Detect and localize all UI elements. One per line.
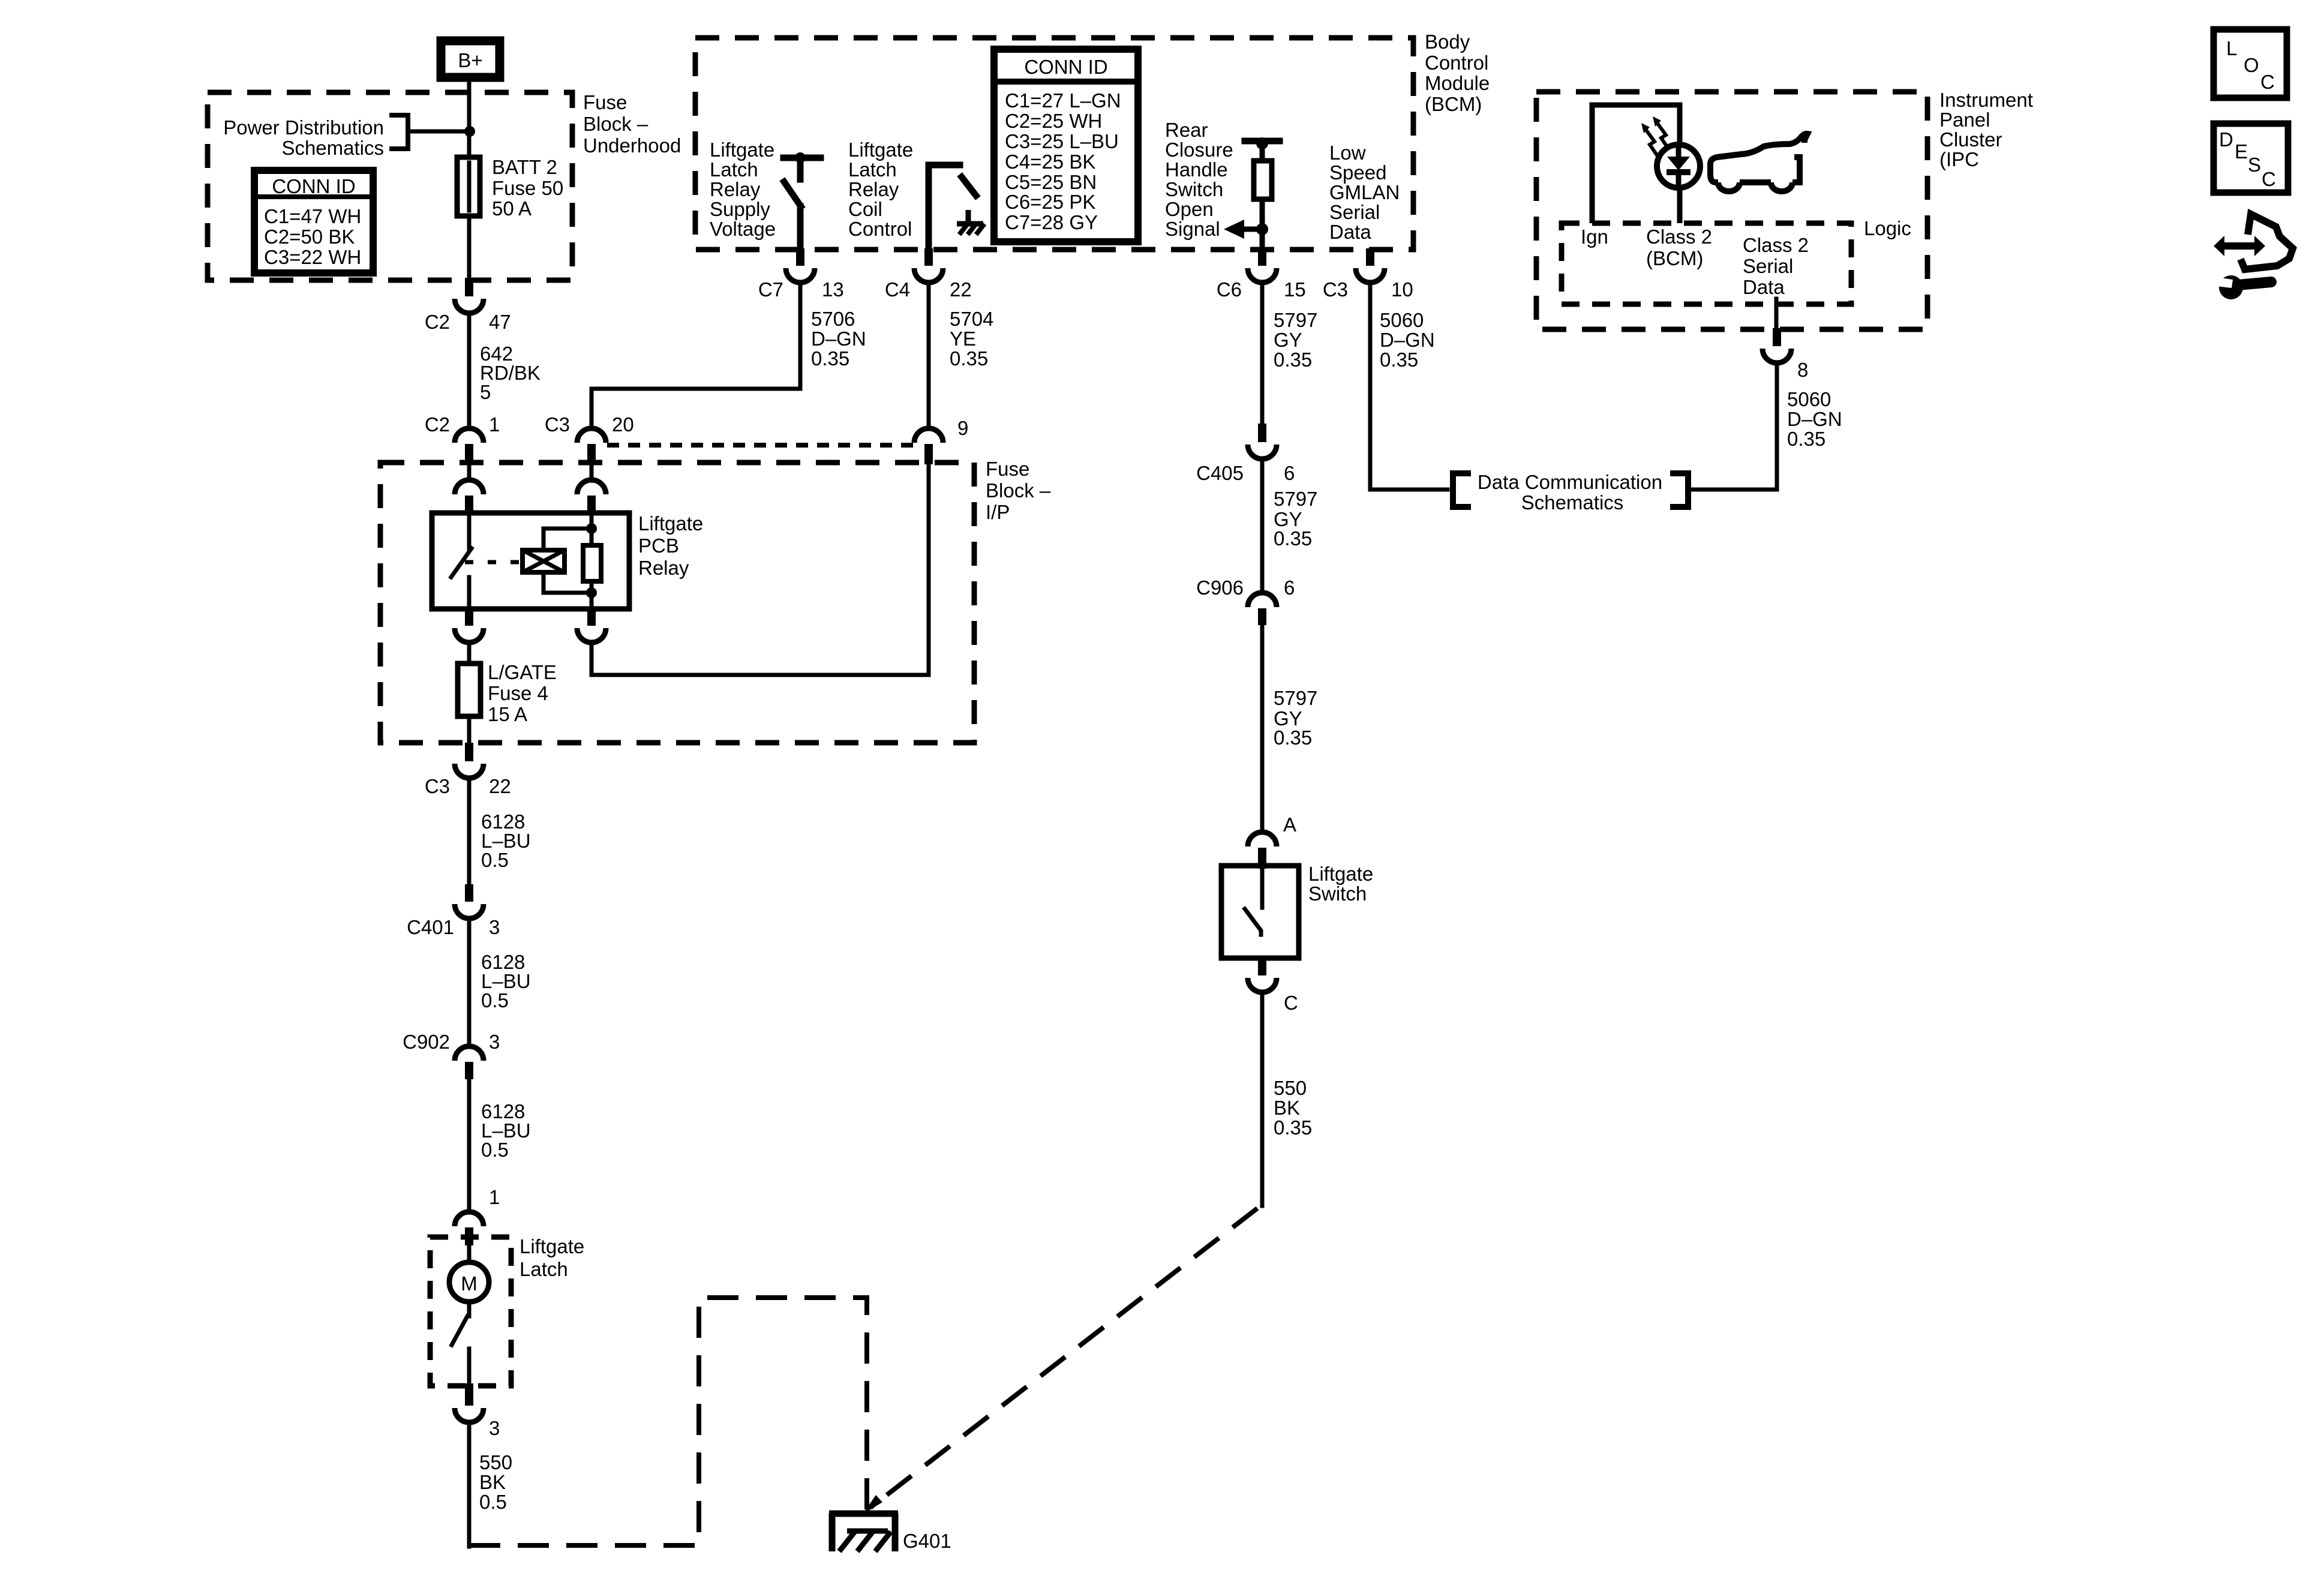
svg-text:Instrument: Instrument xyxy=(1939,89,2033,111)
svg-text:0.5: 0.5 xyxy=(479,1491,507,1513)
svg-text:C401: C401 xyxy=(407,916,454,938)
svg-text:C2=25 WH: C2=25 WH xyxy=(1005,110,1102,132)
svg-text:Liftgate: Liftgate xyxy=(520,1235,584,1257)
supply voltage switch in BCM xyxy=(783,152,821,250)
svg-text:22: 22 xyxy=(950,278,972,301)
wire 550 BK 0.35 from liftgate switch xyxy=(1260,992,1265,1206)
svg-text:C3=22 WH: C3=22 WH xyxy=(264,246,361,268)
svg-text:8: 8 xyxy=(1797,359,1808,381)
svg-text:Closure: Closure xyxy=(1165,139,1233,161)
svg-text:C4=25 BK: C4=25 BK xyxy=(1005,151,1095,173)
svg-text:D–GN: D–GN xyxy=(1787,408,1842,430)
body control module dashed box xyxy=(695,38,1413,250)
svg-text:10: 10 xyxy=(1391,278,1413,301)
dashed ground path from latch to G401 xyxy=(469,1298,867,1545)
svg-text:Rear: Rear xyxy=(1165,119,1208,141)
svg-text:C3: C3 xyxy=(1323,278,1348,301)
logic dashed box in IPC xyxy=(1562,223,1851,304)
connector C401 pin 3 xyxy=(407,884,500,938)
dashed diagonal ground wire to G401 xyxy=(870,1208,1257,1508)
svg-text:0.35: 0.35 xyxy=(1274,527,1312,550)
svg-text:GY: GY xyxy=(1274,329,1302,351)
wire B+ down to fuse xyxy=(467,82,472,157)
power symbol B+ xyxy=(441,41,500,77)
wire coil bottom branch xyxy=(544,572,589,593)
svg-text:C: C xyxy=(1284,992,1298,1014)
connector C3 pin 10 xyxy=(1323,248,1413,301)
connector liftgate switch pin A xyxy=(1248,813,1296,869)
LED emission arrows xyxy=(1641,116,1669,156)
connector C7 pin 13 xyxy=(758,248,844,301)
navigation arrow icon xyxy=(2214,214,2293,269)
svg-text:Handle: Handle xyxy=(1165,158,1228,181)
svg-text:Schematics: Schematics xyxy=(1521,491,1624,514)
motor M in liftgate latch xyxy=(449,1245,489,1302)
rear closure resistor branch in BCM xyxy=(1245,137,1280,250)
svg-text:C6=25 PK: C6=25 PK xyxy=(1005,191,1095,213)
svg-text:15: 15 xyxy=(1284,278,1306,301)
svg-text:O: O xyxy=(2244,54,2259,76)
svg-text:0.5: 0.5 xyxy=(481,849,509,871)
DESC icon box xyxy=(2214,124,2288,193)
svg-text:Block –: Block – xyxy=(583,113,648,135)
wire 6128 L-BU 0.5 (segment 1) xyxy=(467,778,472,885)
liftgate switch box xyxy=(1221,866,1299,958)
open signal arrow xyxy=(1224,220,1268,239)
svg-text:BATT 2: BATT 2 xyxy=(492,156,557,178)
wire through relay right xyxy=(590,513,594,545)
svg-text:Supply: Supply xyxy=(710,198,770,220)
svg-text:0.5: 0.5 xyxy=(481,989,509,1011)
svg-text:Relay: Relay xyxy=(638,557,689,579)
svg-text:C2: C2 xyxy=(425,413,450,436)
svg-text:Module: Module xyxy=(1425,72,1490,94)
svg-text:Panel: Panel xyxy=(1939,109,1990,131)
svg-text:Ign: Ign xyxy=(1581,226,1608,248)
svg-text:Switch: Switch xyxy=(1165,178,1223,200)
wire bracket to IPC pin 8 xyxy=(1691,364,1777,490)
telltale solid box in IPC xyxy=(1592,105,1680,223)
wire coil top branch xyxy=(544,529,589,550)
svg-text:0.35: 0.35 xyxy=(1274,349,1312,371)
svg-text:1: 1 xyxy=(489,413,500,436)
svg-text:D: D xyxy=(2219,128,2233,151)
fuse BATT 2 Fuse 50 50 A xyxy=(457,156,563,278)
svg-text:5797: 5797 xyxy=(1274,687,1317,709)
svg-text:20: 20 xyxy=(612,413,634,436)
node dot coil bottom xyxy=(586,587,597,598)
svg-text:C3: C3 xyxy=(545,413,570,436)
svg-text:0.35: 0.35 xyxy=(811,347,849,370)
svg-text:YE: YE xyxy=(950,328,976,350)
svg-text:GMLAN: GMLAN xyxy=(1329,181,1400,203)
LOC icon box xyxy=(2214,29,2287,98)
svg-text:L/GATE: L/GATE xyxy=(488,661,557,683)
svg-text:Data: Data xyxy=(1329,221,1371,243)
internal ground rake in BCM xyxy=(957,210,984,235)
wire 6128 L-BU 0.5 (segment 3) xyxy=(467,1079,472,1212)
svg-text:3: 3 xyxy=(489,1031,500,1053)
wire 5797 GY 0.35 (segment 3) xyxy=(1260,625,1265,832)
connector C4 pin 22 xyxy=(885,248,972,301)
svg-text:C7=28 GY: C7=28 GY xyxy=(1005,211,1098,233)
relay socket connector left out xyxy=(455,609,484,664)
svg-text:5797: 5797 xyxy=(1274,309,1317,331)
connector C405 pin 6 xyxy=(1196,424,1295,484)
relay linkage dashes xyxy=(465,560,521,565)
node dot coil top xyxy=(586,523,597,534)
svg-text:(BCM): (BCM) xyxy=(1646,247,1703,269)
svg-text:Coil: Coil xyxy=(848,198,882,220)
wrench icon xyxy=(2216,275,2271,299)
ground G401 symbol xyxy=(829,1514,898,1551)
svg-text:B+: B+ xyxy=(458,49,482,71)
wire 5060 D-GN 0.35 to data bracket xyxy=(1370,283,1448,490)
svg-text:BK: BK xyxy=(1274,1097,1300,1119)
svg-text:Fuse: Fuse xyxy=(583,91,627,113)
svg-text:0.35: 0.35 xyxy=(1274,727,1312,749)
svg-text:C1=27 L–GN: C1=27 L–GN xyxy=(1005,89,1121,112)
connector C902 pin 3 xyxy=(403,1031,500,1079)
svg-text:50 A: 50 A xyxy=(492,197,532,220)
svg-text:G401: G401 xyxy=(903,1530,951,1552)
wire from logic to pin 8 xyxy=(1774,299,1779,329)
svg-text:Data Communication: Data Communication xyxy=(1478,471,1662,493)
svg-text:C2: C2 xyxy=(425,311,450,333)
svg-text:C2=50 BK: C2=50 BK xyxy=(264,226,355,248)
svg-text:C906: C906 xyxy=(1196,577,1244,599)
svg-text:C3=25 L–BU: C3=25 L–BU xyxy=(1005,130,1119,152)
liftgate switch contact xyxy=(1245,866,1262,935)
svg-text:BK: BK xyxy=(479,1471,506,1493)
svg-text:Liftgate: Liftgate xyxy=(638,512,703,535)
relay socket connector right out xyxy=(577,609,606,643)
svg-text:Open: Open xyxy=(1165,198,1214,220)
svg-text:0.35: 0.35 xyxy=(950,347,988,370)
svg-text:M: M xyxy=(461,1272,478,1295)
svg-text:Power Distribution: Power Distribution xyxy=(223,116,384,139)
svg-text:C: C xyxy=(2260,71,2275,93)
svg-text:C405: C405 xyxy=(1196,462,1244,484)
svg-text:D–GN: D–GN xyxy=(811,328,866,350)
connector pin 8 xyxy=(1762,328,1808,381)
instrument panel cluster dashed box xyxy=(1536,92,1927,329)
vehicle liftgate icon in IPC xyxy=(1710,134,1807,191)
connector C2 pin 47 xyxy=(425,278,511,333)
fuse block I/P dashed box xyxy=(380,463,974,743)
svg-text:550: 550 xyxy=(1274,1077,1307,1099)
relay switch contact xyxy=(451,513,472,609)
svg-text:Liftgate: Liftgate xyxy=(848,139,913,161)
note Data Communication Schematics with brackets xyxy=(1453,471,1688,514)
latch switch contact xyxy=(452,1302,469,1383)
svg-text:6: 6 xyxy=(1284,577,1295,599)
svg-text:550: 550 xyxy=(479,1451,512,1473)
svg-text:CONN ID: CONN ID xyxy=(272,175,355,197)
svg-text:Relay: Relay xyxy=(848,178,899,200)
wire 5797 GY 0.35 (segment 2) xyxy=(1260,459,1265,593)
resistor in relay xyxy=(583,545,601,581)
connector pin 9 xyxy=(914,417,968,464)
svg-text:C5=25 BN: C5=25 BN xyxy=(1005,171,1097,193)
svg-text:0.35: 0.35 xyxy=(1787,428,1825,450)
svg-text:9: 9 xyxy=(957,417,968,439)
svg-text:5704: 5704 xyxy=(950,308,993,330)
wire to power distribution bracket xyxy=(409,130,467,134)
wire 5706 D-GN 0.35 to C3/20 xyxy=(591,283,800,428)
svg-text:Fuse 50: Fuse 50 xyxy=(492,177,563,199)
svg-text:Fuse 4: Fuse 4 xyxy=(488,682,548,704)
svg-text:6: 6 xyxy=(1284,462,1295,484)
svg-text:Speed: Speed xyxy=(1329,161,1386,184)
svg-text:C6: C6 xyxy=(1217,278,1242,301)
svg-text:47: 47 xyxy=(489,311,511,333)
CONN ID table (BCM) xyxy=(994,49,1138,242)
liftgate latch dashed box xyxy=(430,1237,511,1386)
svg-text:Class 2: Class 2 xyxy=(1743,234,1809,256)
svg-text:Serial: Serial xyxy=(1329,201,1380,223)
svg-text:5: 5 xyxy=(480,381,491,403)
relay socket connector right in xyxy=(577,466,606,512)
svg-text:Relay: Relay xyxy=(710,178,761,200)
svg-text:Data: Data xyxy=(1743,276,1785,298)
wire coil return to pin 9 xyxy=(591,466,929,675)
svg-text:15 A: 15 A xyxy=(488,703,527,725)
connector latch pin 1 xyxy=(455,1186,500,1245)
svg-text:Control: Control xyxy=(848,218,912,240)
connector latch pin 3 xyxy=(455,1383,500,1439)
note Power Distribution Schematics with bracket xyxy=(223,115,408,159)
svg-text:Control: Control xyxy=(1425,52,1488,74)
svg-text:Latch: Latch xyxy=(848,158,897,181)
svg-text:5060: 5060 xyxy=(1380,309,1424,331)
svg-text:C3: C3 xyxy=(425,775,450,797)
svg-text:Body: Body xyxy=(1425,31,1470,53)
svg-text:I/P: I/P xyxy=(986,501,1010,523)
svg-text:Underhood: Underhood xyxy=(583,134,681,157)
wire 642 RD/BK 5 xyxy=(467,313,472,428)
svg-text:Voltage: Voltage xyxy=(710,218,776,240)
fuse block underhood dashed box xyxy=(208,92,572,280)
connector C3 pin 20 xyxy=(545,413,634,464)
svg-text:A: A xyxy=(1283,813,1296,836)
svg-text:1: 1 xyxy=(489,1186,500,1208)
svg-text:Fuse: Fuse xyxy=(986,458,1029,480)
svg-text:Latch: Latch xyxy=(520,1258,568,1280)
svg-text:Class 2: Class 2 xyxy=(1646,226,1712,248)
connector C3 pin 22 xyxy=(425,743,511,797)
svg-text:5706: 5706 xyxy=(811,308,855,330)
svg-text:L: L xyxy=(2226,37,2237,59)
wire 6128 L-BU 0.5 (segment 2) xyxy=(467,918,472,1046)
wire 550 BK 0.5 xyxy=(467,1422,472,1547)
svg-text:(IPC: (IPC xyxy=(1939,148,1979,170)
LED indicator in IPC xyxy=(1657,145,1700,188)
wire 5704 YE 0.35 xyxy=(927,283,931,428)
CONN ID table (underhood) xyxy=(254,170,373,273)
svg-text:Block –: Block – xyxy=(986,479,1051,502)
wire fuse to box edge xyxy=(467,716,472,743)
svg-text:Liftgate: Liftgate xyxy=(710,139,774,161)
svg-text:22: 22 xyxy=(489,775,511,797)
svg-text:Serial: Serial xyxy=(1743,255,1793,277)
svg-text:S: S xyxy=(2248,154,2261,176)
relay socket connector left in xyxy=(455,466,484,512)
svg-text:0.5: 0.5 xyxy=(481,1139,509,1161)
svg-text:3: 3 xyxy=(489,1417,500,1439)
svg-text:(BCM): (BCM) xyxy=(1425,93,1482,115)
svg-text:E: E xyxy=(2235,140,2248,163)
svg-text:Switch: Switch xyxy=(1308,882,1367,905)
svg-text:5060: 5060 xyxy=(1787,388,1831,410)
svg-text:3: 3 xyxy=(489,916,500,938)
svg-text:CONN ID: CONN ID xyxy=(1024,56,1107,78)
connector liftgate switch pin C xyxy=(1248,958,1298,1014)
svg-text:Low: Low xyxy=(1329,142,1366,164)
svg-text:C902: C902 xyxy=(403,1031,450,1053)
relay coil crossed box xyxy=(523,550,565,572)
svg-text:Cluster: Cluster xyxy=(1939,128,2002,151)
svg-text:13: 13 xyxy=(822,278,844,301)
relay U-block Liftgate PCB Relay xyxy=(432,513,629,609)
svg-text:5797: 5797 xyxy=(1274,488,1317,510)
svg-text:C4: C4 xyxy=(885,278,910,301)
connector C2 pin 1 xyxy=(425,413,500,464)
svg-text:Latch: Latch xyxy=(710,158,758,181)
dotted link C3/20 to pin 9 xyxy=(607,443,913,448)
svg-text:Liftgate: Liftgate xyxy=(1308,863,1373,885)
connector C906 pin 6 xyxy=(1196,577,1295,625)
connector C6 pin 15 xyxy=(1217,248,1306,301)
svg-text:C: C xyxy=(2262,168,2276,190)
svg-text:0.35: 0.35 xyxy=(1380,349,1418,371)
node junction at power distribution tap xyxy=(464,126,475,137)
svg-text:C1=47 WH: C1=47 WH xyxy=(264,205,361,227)
arrowhead at ground junction xyxy=(863,1495,882,1514)
svg-text:0.35: 0.35 xyxy=(1274,1116,1312,1139)
wire 5797 GY 0.35 (segment 1) xyxy=(1260,283,1265,424)
svg-text:C7: C7 xyxy=(758,278,783,301)
svg-text:Logic: Logic xyxy=(1864,217,1911,239)
coil control switch in BCM xyxy=(929,165,976,250)
fuse L/GATE Fuse 4 15 A xyxy=(458,661,557,725)
svg-text:PCB: PCB xyxy=(638,535,679,557)
svg-text:D–GN: D–GN xyxy=(1380,329,1435,351)
svg-text:Schematics: Schematics xyxy=(281,137,384,159)
svg-text:Signal: Signal xyxy=(1165,218,1220,240)
